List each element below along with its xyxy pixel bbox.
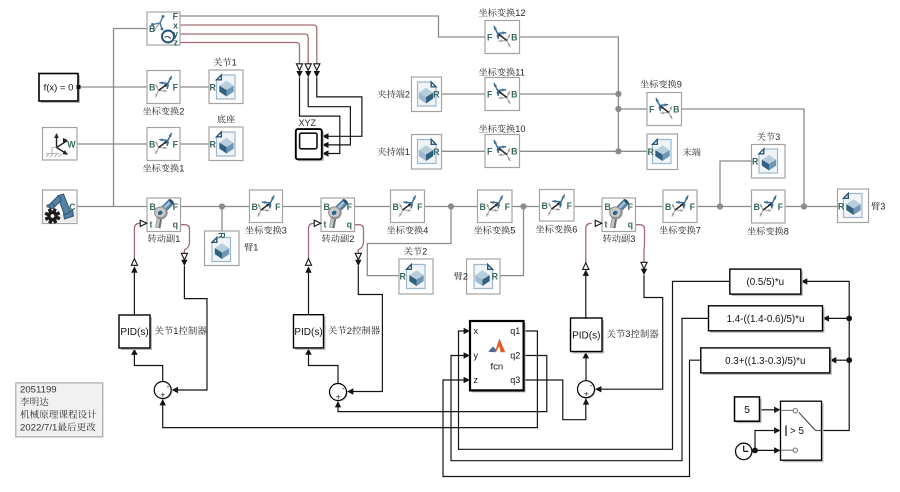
block 坐标变换3 [250,190,283,223]
block 坐标变换2 [147,71,180,104]
svg-text:1: 1 [179,164,184,174]
svg-text:F: F [778,202,784,212]
label 转动副2 [322,234,330,242]
block 关节1 solid [209,70,243,104]
block switch [783,403,824,462]
input port arrow t1 [140,220,147,226]
wire 转动副3 q output (PS) [636,225,645,263]
wire constant 5 to switch input 1 [760,409,775,411]
junction gain3 input [846,357,852,363]
wire 坐标变换2 F to 关节1 R [180,86,209,88]
PID controller 2 [296,317,326,350]
label 臂2 [454,272,463,281]
wire fcn q1 to sum1 reference [163,331,538,428]
annotation box student info [16,383,103,437]
svg-text:2: 2 [179,107,184,117]
wire bus to sensor B [114,28,148,30]
wire x to scope input 1 [317,77,362,136]
label 转动副3 [603,234,611,242]
svg-text:B: B [605,202,611,212]
wire 转动副2 F to 坐标变换4 B [355,206,391,208]
svg-text:6: 6 [572,225,577,235]
svg-text:12: 12 [515,8,525,18]
block mechanism configuration [43,190,78,224]
svg-text:R: R [433,147,440,157]
junction after 坐标变换4 [448,203,454,209]
block 坐标变换10 (mirrored) [485,135,520,168]
wire 坐标变换4 F to 坐标变换5 B [425,206,478,208]
label 关节2 [404,247,413,255]
label 坐标变换11 [479,68,487,76]
svg-text:1.4-((1.4-0.6)/5)*u: 1.4-((1.4-0.6)/5)*u [727,314,805,325]
block 转动副1 revolute joint [147,198,181,232]
wire 转动副1 F to 坐标变换3 B [181,206,250,208]
svg-text:9: 9 [677,80,682,90]
wire 转动副2 q output (PS) [355,225,364,254]
block 坐标变换6 [540,190,575,222]
svg-text:F: F [487,89,493,99]
svg-text:B: B [673,104,679,114]
label 关节1 [213,58,222,66]
svg-text:PID(s): PID(s) [120,327,148,338]
label 坐标变换6 [536,225,544,233]
svg-text:-: - [590,380,593,390]
wire clock to switch inputs [751,449,775,451]
junction 末端 R [615,148,621,154]
wire to gain2 input [829,317,850,319]
sum junction 2 [331,385,348,402]
svg-text:2: 2 [349,234,354,244]
text 李明达 [20,397,29,406]
svg-text:R: R [648,147,655,157]
svg-text:R: R [492,272,499,282]
wire 转动副1 q to sum1 minus input [177,266,207,390]
svg-text:B: B [480,202,486,212]
PS-Simulink boundary arrows q 3 [641,262,647,269]
wire 坐标变换5 F to 坐标变换6 B [512,206,540,208]
svg-text:F: F [628,202,634,212]
Simulink-PS boundary arrows t 2 [305,259,311,266]
wire sensor x output (PS) [180,25,317,64]
input port arrow t3 [595,220,602,226]
wire gain2 output to fcn y input [451,318,709,460]
svg-text:fcn: fcn [490,362,503,373]
block 坐标变换12 (mirrored) [485,21,520,54]
svg-text:F: F [417,202,423,212]
label 夹持端1 [378,147,386,155]
svg-text:t: t [150,220,153,230]
wire z to scope input 3 [300,77,340,153]
wire 夹持端2 R to 坐标变换11 F [442,93,486,95]
wire sum2 to PID 2 input [309,354,339,384]
wire 转动副2 q to sum2 minus input [352,266,382,391]
wire y to scope input 2 [308,77,350,144]
wire 坐标变换12 B to frame bus [520,37,619,151]
block clock [736,443,752,459]
svg-text:F: F [173,202,179,212]
svg-text:2051199: 2051199 [20,385,57,396]
svg-text:11: 11 [515,68,525,78]
svg-text:3: 3 [880,202,885,212]
block constant 5 [737,399,762,423]
svg-text:x: x [474,326,479,336]
wire PID 2 output to 转动副2 t (PS) [309,223,315,258]
svg-text:B: B [511,146,517,156]
wire junction to 关节3 R [720,161,752,207]
svg-text:XYZ: XYZ [299,118,317,128]
svg-text:F: F [275,202,281,212]
wire 夹持端1 R to 坐标变换10 F [442,150,486,152]
svg-text:F: F [347,202,353,212]
wire 坐标变换6 F to 转动副3 B [574,206,602,208]
PID controller 3 [573,320,605,354]
wire world W to 坐标变换1 B [77,143,147,145]
svg-text:B: B [324,202,330,212]
block 夹持端1 solid (mirrored) [412,135,442,170]
svg-text:5: 5 [744,404,750,416]
block 夹持端2 solid (mirrored) [412,77,442,112]
svg-text:F: F [649,104,655,114]
junction gain2 input [846,316,852,322]
svg-text:B: B [542,201,548,211]
wire sensor y output (PS) [180,34,308,64]
svg-text:10: 10 [515,124,525,134]
wire 坐标变换1 F to 底座 R [180,143,209,145]
label 臂3 [871,202,880,211]
wire 转动副3 q to sum3 minus input [600,275,662,389]
wire 坐标变换7 F to 坐标变换8 B [697,206,752,208]
block 坐标变换5 [478,190,513,223]
wire sensor F to 坐标变换12 F [180,16,485,37]
svg-text:F: F [505,202,511,212]
label 坐标变换9 [640,80,648,88]
svg-text:2: 2 [347,325,352,336]
block 坐标变换9 (mirrored) [647,93,682,126]
sum junction 1 [155,383,172,400]
svg-text:8: 8 [784,227,789,237]
junction after 坐标变换8 [801,203,807,209]
svg-text:1: 1 [175,234,180,244]
svg-text:z: z [174,38,179,48]
svg-text:B: B [150,202,156,212]
wire f(x)=0 to 坐标变换2 B [78,86,147,88]
wire gain3 output to fcn z input [443,360,701,476]
wire fcn q2 to sum2 reference [338,356,547,412]
junction after 坐标变换5 [520,203,526,209]
svg-text:7: 7 [696,226,701,236]
svg-text:(0.5/5)*u: (0.5/5)*u [747,277,785,288]
svg-text:3: 3 [282,226,287,236]
svg-text:3: 3 [775,132,780,142]
wire sensor z output (PS) [180,43,300,65]
svg-text:y: y [474,351,479,361]
label 底座 [217,115,225,124]
wire sum3 to PID 3 input [585,358,587,381]
label 坐标变换3 [245,226,253,234]
svg-text:q1: q1 [510,326,520,336]
svg-text:q: q [173,220,178,230]
junction before 坐标变换8 [717,203,723,209]
svg-text:B: B [149,139,155,149]
wire 坐标变换11 B to frame bus [520,93,619,95]
svg-text:PID(s): PID(s) [572,330,600,341]
svg-text:1: 1 [173,325,178,336]
svg-text:B: B [665,202,671,212]
svg-text:t: t [605,220,608,230]
svg-text:z: z [474,375,479,385]
block gain (0.5/5)*u [732,271,803,296]
block 臂2 solid (mirrored) [467,259,501,294]
junction clock output [752,448,758,454]
svg-text:B: B [511,32,517,42]
svg-text:4: 4 [423,226,428,236]
PS-Simulink boundary arrows q 2 [355,253,361,260]
svg-text:B: B [252,202,258,212]
svg-text:1: 1 [232,58,237,68]
label 关节3 [757,132,766,140]
svg-text:3: 3 [625,328,630,339]
wire 转动副1 q output (PS) [181,225,190,254]
svg-text:q: q [628,220,633,230]
wire 坐标变换3 F to 转动副2 B [283,206,322,208]
wire sum1 to PID 1 input [134,354,162,382]
svg-text:q2: q2 [510,351,520,361]
label 坐标变换4 [387,226,395,234]
label 坐标变换10 [479,124,487,132]
label 坐标变换1 [143,164,151,172]
wire junction to 臂2 R [500,207,524,276]
Simulink-PS boundary arrows t 3 [583,263,589,270]
label 臂1 [244,243,253,252]
svg-text:B: B [149,24,155,34]
junction after 转动副1 [219,203,225,209]
PS-Simulink boundary arrows xyz line 3 [296,64,302,71]
svg-text:F: F [567,201,573,211]
label 末端 [683,148,692,156]
wire config C to 转动副1 B [77,206,147,208]
label 关节1控制器 [155,326,164,335]
svg-text:q: q [347,220,352,230]
block 坐标变换4 [391,190,425,223]
label 转动副1 [148,234,156,242]
block 坐标变换11 (mirrored) [485,78,520,111]
block gain 1.4-((1.4-0.6)/5)*u [711,308,825,333]
svg-text:f(x) = 0: f(x) = 0 [44,83,74,94]
label 坐标变换7 [659,226,667,234]
wire 坐标变换9 B down to main row [682,109,805,207]
svg-text:> 5: > 5 [790,426,804,437]
svg-text:R: R [400,272,407,282]
svg-text:q3: q3 [510,375,520,385]
label 关节3控制器 [607,329,616,338]
svg-text:F: F [173,82,179,92]
label 夹持端2 [378,90,386,98]
svg-text:PID(s): PID(s) [294,327,322,338]
svg-text:F: F [690,202,696,212]
sum junction 3 [579,382,596,399]
svg-text:R: R [216,232,226,239]
svg-text:3: 3 [630,234,635,244]
label 坐标变换5 [474,226,482,234]
block 转动副2 revolute joint [321,198,355,232]
svg-text:R: R [433,89,440,99]
text 机械原理课程设计 [20,410,29,419]
svg-text:1: 1 [253,243,258,253]
block 关节2 solid [399,259,433,294]
wire gain1 output to fcn x input [459,281,730,449]
block 底座 solid [209,127,243,161]
wire junction to 臂1 R [221,207,223,232]
junction 坐标变换9 F [615,106,621,112]
svg-text:B: B [754,202,760,212]
label 坐标变换2 [143,107,151,115]
PS-Simulink boundary arrows xyz line 1 [314,64,320,71]
block world frame [43,128,78,161]
svg-text:F: F [487,32,493,42]
Simulink-PS boundary arrows t 1 [131,259,137,266]
wire solver-world-config bus [113,29,115,207]
svg-text:t: t [324,220,327,230]
svg-text:R: R [752,156,759,166]
svg-text:-: - [167,381,170,391]
wire to gain3 input [836,359,849,361]
block 臂1 solid (rotated) [205,231,240,266]
svg-text:2: 2 [405,90,410,100]
svg-text:2: 2 [422,247,427,257]
PID controller 1 [121,317,152,350]
wire 坐标变换10 B to 末端 R [520,150,648,152]
block solver f(x)=0 [41,76,80,104]
svg-text:5: 5 [510,226,515,236]
block 坐标变换8 [752,190,786,223]
block 臂3 solid [838,189,869,223]
svg-text:+: + [336,392,341,402]
svg-text:B: B [149,82,155,92]
wire PID 1 output to 转动副1 t (PS) [134,223,140,258]
block MATLAB Function fcn [472,323,526,392]
svg-text:2: 2 [463,272,468,282]
svg-text:R: R [838,201,845,211]
wire fcn q3 to sum3 reference [524,380,586,420]
wire PID 3 output to 转动副3 t (PS) [586,223,592,262]
block gain 0.3+((1.3-0.3)/5)*u [703,350,832,375]
svg-text:0.3+((1.3-0.3)/5)*u: 0.3+((1.3-0.3)/5)*u [725,356,805,367]
block XYZ scope [298,131,324,161]
svg-text:R: R [210,139,217,149]
block 坐标变换1 [147,128,180,161]
svg-text:-: - [342,383,345,393]
svg-text:+: + [160,390,165,400]
svg-text:W: W [67,140,76,150]
block transform sensor [147,12,180,45]
wire 转动副3 F to 坐标变换7 B [636,206,664,208]
svg-text:+: + [584,389,589,399]
label 关节2控制器 [328,326,337,335]
wire 坐标变换8 F to 臂3 R [785,206,838,208]
PS-Simulink boundary arrows xyz line 2 [305,64,311,71]
block 转动副3 revolute joint [602,198,636,232]
svg-text:C: C [69,202,76,212]
junction 坐标变换11 B [615,91,621,97]
svg-text:F: F [487,146,493,156]
block 坐标变换7 [663,190,697,223]
svg-text:F: F [173,139,179,149]
wire junction to 关节2 R [367,207,451,276]
svg-text:R: R [210,82,217,92]
label 坐标变换12 [479,8,487,16]
svg-text:B: B [511,89,517,99]
wire frame bus to 坐标变换9 F [618,108,647,110]
wire switch output to gain inputs [807,281,849,430]
input port arrow t2 [314,220,321,226]
svg-text:1: 1 [405,147,410,157]
svg-text:2022/7/1: 2022/7/1 [20,422,57,433]
PS-Simulink boundary arrows q 1 [181,253,187,260]
label 坐标变换8 [747,227,755,235]
svg-text:B: B [393,202,399,212]
block 关节3 solid [752,145,786,179]
block 末端 solid [647,134,678,170]
